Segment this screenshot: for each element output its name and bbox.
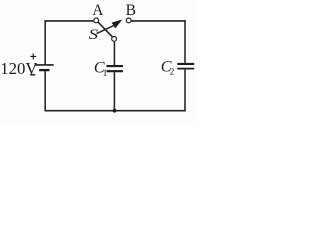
svg-text:S: S xyxy=(89,27,99,43)
svg-text:1: 1 xyxy=(103,69,108,79)
svg-text:B: B xyxy=(126,2,136,19)
svg-text:2: 2 xyxy=(170,67,175,77)
svg-text:120V: 120V xyxy=(0,59,37,78)
svg-text:A: A xyxy=(92,2,104,19)
